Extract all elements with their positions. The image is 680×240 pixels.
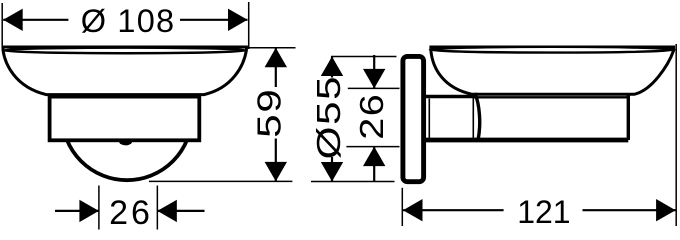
dimension 26 front: extension line left <box>98 186 100 230</box>
dimension Ø108: arrow left <box>3 9 23 31</box>
dimension 26 front: extension line right <box>156 186 158 230</box>
dimension 59: arrow top <box>265 48 287 68</box>
dimension 59: line <box>275 48 277 87</box>
dimension 121: extension line left <box>401 188 403 226</box>
svg-text:121: 121 <box>517 194 570 230</box>
svg-text:59: 59 <box>252 88 289 138</box>
dimension 59: extension line bottom <box>149 180 292 182</box>
dimension Ø108: line <box>3 19 68 21</box>
svg-text:26: 26 <box>109 194 153 232</box>
dish rim side view <box>430 47 675 53</box>
dimension 26 side: extension line top <box>348 87 400 89</box>
dimension 26 side: extension line bottom <box>346 146 399 148</box>
dimension Ø55: extension line bottom <box>311 181 395 183</box>
dimension 121: arrow right <box>656 199 676 221</box>
dimension 26 side: line <box>373 55 375 88</box>
holder arm top line <box>424 95 475 98</box>
holder shelf right edge <box>627 96 630 141</box>
holder band front view <box>50 97 200 141</box>
soap dish bowl side view <box>431 47 674 94</box>
dimension 59: extension line top <box>247 47 296 49</box>
dimension Ø55: line <box>331 57 333 78</box>
holder shelf top line <box>474 96 628 98</box>
dimension 26 side: arrow bottom <box>363 147 385 167</box>
wall rosette side view <box>403 56 424 181</box>
dish rim front view <box>3 48 247 54</box>
dimension 121: arrow left <box>403 199 423 221</box>
dimension 26 front: line <box>55 210 99 212</box>
arm collar line at rosette <box>428 99 430 140</box>
small knob under holder band <box>119 141 132 145</box>
dimension Ø108: extension line right <box>248 2 250 49</box>
dimension Ø55: extension line top <box>331 56 397 58</box>
dimension 59: arrow bottom <box>265 162 287 182</box>
holder joint line <box>472 97 474 139</box>
dimension 26 front: arrow right <box>157 200 177 222</box>
holder arm / shelf bottom line <box>424 138 628 143</box>
dimension Ø108: arrow right <box>228 9 248 31</box>
svg-text:Ø 108: Ø 108 <box>81 3 176 39</box>
dimension Ø55: arrow bottom <box>321 162 343 182</box>
svg-text:26: 26 <box>353 93 390 140</box>
soap dish bowl front view <box>3 47 246 95</box>
dimension 121: line <box>403 209 504 211</box>
dimension 26 front: arrow left <box>79 200 99 222</box>
dimension Ø108: extension line left <box>1 3 3 48</box>
dimension 121: extension line right <box>675 44 677 226</box>
dimension 26 side: arrow top <box>363 69 385 89</box>
dimension Ø55: arrow top <box>321 57 343 77</box>
wall rosette circle (behind, bottom visible as semicircle) <box>62 50 192 180</box>
svg-text:Ø55: Ø55 <box>311 75 348 159</box>
holder joint curve <box>475 93 480 140</box>
